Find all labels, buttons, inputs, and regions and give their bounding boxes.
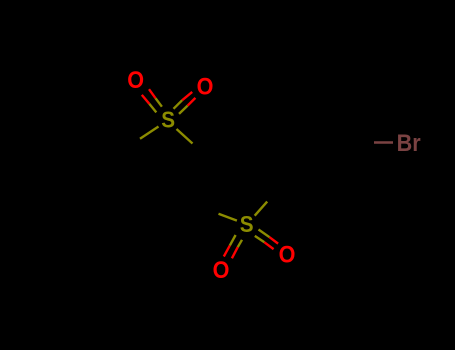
bond S1-C(vinyl) half-bond (olive half near S; carbon half invisible)	[177, 129, 193, 144]
svg-text:S: S	[161, 106, 175, 132]
svg-text:O: O	[127, 66, 144, 93]
atom S1 (top sulfonyl sulfur)	[161, 106, 175, 132]
svg-text:S: S	[240, 211, 254, 237]
bond S1=O2 double bond line 1 (olive half near S, red half near O)	[174, 92, 193, 109]
bond S2=O4 double bond line 1 (olive half near S, red half near O)	[259, 230, 279, 244]
atom O2 (right oxygen of top sulfonyl S1)	[197, 72, 214, 99]
bond S2=O4 double bond line 2 (olive half near S, red half near O)	[255, 236, 274, 249]
atom Br (bromine substituent)	[397, 129, 421, 156]
bond S2=O3 double bond line 1 (olive half near S, red half near O)	[224, 235, 236, 257]
bond Br-C(aryl) half-bond (dark-red half near Br; carbon half invisible)	[374, 141, 393, 143]
svg-text:O: O	[197, 72, 214, 99]
svg-text:Br: Br	[397, 129, 421, 156]
bond S2=O3 double bond line 2 (olive half near S, red half near O)	[232, 240, 242, 258]
svg-text:O: O	[279, 241, 296, 268]
bond S2-C(bromophenyl) half-bond (olive half near S; carbon half invisible)	[255, 202, 268, 216]
bond S1=O2 double bond line 2 (olive half near S, red half near O)	[179, 98, 195, 114]
svg-text:O: O	[213, 256, 230, 283]
bond S2-C(vinyl) half-bond (olive half near S; carbon half invisible)	[219, 214, 237, 221]
atom O3 (lower-left oxygen of bottom sulfonyl S2)	[213, 256, 230, 283]
atom O4 (lower-right oxygen of bottom sulfonyl S2)	[279, 241, 296, 268]
atom S2 (bottom sulfonyl sulfur)	[240, 211, 254, 237]
bond S1-C(phenyl) half-bond (olive half near S; carbon half invisible)	[140, 127, 159, 139]
bond S1=O1 double bond line 1 (olive half near S, red half near O)	[149, 89, 162, 107]
bond S1=O1 double bond line 2 (olive half near S, red half near O)	[142, 95, 157, 113]
atom O1 (left oxygen of top sulfonyl S1)	[127, 66, 144, 93]
